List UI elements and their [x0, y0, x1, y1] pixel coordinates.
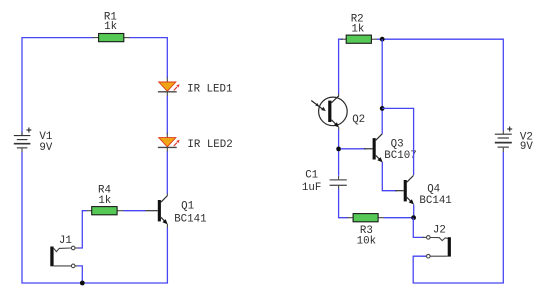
- connector J2: [423, 224, 451, 258]
- wire: R3 right to emitter node: [384, 217, 414, 219]
- wire: LED2 to Q1 collector: [166, 151, 168, 193]
- transistor Q3: [364, 134, 417, 163]
- resistor R1: [93, 11, 130, 41]
- junction: Q2/Q3/C1 node: [336, 147, 341, 152]
- junction: R2 / V2+ node: [380, 37, 385, 42]
- resistor R3: [347, 214, 384, 248]
- junction: J1/V1 bottom node: [80, 281, 85, 286]
- svg-text:Q2: Q2: [352, 114, 365, 126]
- svg-text:Q4: Q4: [427, 184, 440, 196]
- wire: C1 down to R3 left: [339, 189, 349, 218]
- wire: top rail R2 to V2+: [377, 39, 503, 131]
- transistor Q1: [144, 194, 206, 229]
- junction: Q3/Q4 collector node: [380, 106, 385, 111]
- wire: R4 to Q1 base: [123, 210, 145, 212]
- wire: R2 left down to Q2 collector: [339, 39, 343, 94]
- battery V2: [495, 127, 534, 154]
- wire: node down to J2 tip: [413, 218, 424, 238]
- junction: R3/Q4/J2 node: [411, 215, 416, 220]
- wire: J2 sleeve to bottom rail to V2-: [413, 152, 503, 283]
- svg-text:BC141: BC141: [174, 214, 206, 226]
- svg-text:IR LED2: IR LED2: [187, 139, 232, 151]
- wire: J1 sleeve down to ground rail: [78, 266, 83, 283]
- IR LED2 (diode D2): [158, 133, 233, 152]
- resistor R4: [86, 185, 123, 215]
- transistor Q4: [395, 175, 452, 207]
- svg-text:J1: J1: [59, 235, 72, 247]
- svg-text:10k: 10k: [357, 236, 376, 248]
- wire: collector node across and down to Q4 collector: [382, 108, 413, 175]
- wire: R1 to IR LED1: [130, 38, 168, 78]
- wire: Q2 emitter down to base node: [338, 130, 340, 176]
- svg-text:1k: 1k: [98, 195, 111, 207]
- svg-text:9V: 9V: [39, 142, 52, 154]
- wire: Q4 emitter down to R3/J2 node: [413, 205, 415, 218]
- svg-text:1k: 1k: [351, 23, 364, 35]
- svg-text:C1: C1: [305, 169, 318, 181]
- wire: Q3 collector up to top rail: [381, 39, 383, 134]
- svg-text:Q1: Q1: [181, 201, 194, 213]
- svg-text:9V: 9V: [520, 141, 533, 153]
- svg-text:1k: 1k: [104, 21, 117, 33]
- phototransistor Q2: [311, 94, 365, 130]
- svg-text:BC141: BC141: [419, 195, 451, 207]
- capacitor C1: [302, 169, 347, 194]
- wire: bottom rail V1- to Q1 emitter: [22, 152, 167, 283]
- battery V1: [14, 128, 53, 155]
- wire: LED1 to LED2: [166, 96, 168, 134]
- resistor R2: [341, 13, 378, 43]
- svg-text:1uF: 1uF: [302, 182, 321, 194]
- IR LED1 (diode D1): [158, 78, 233, 97]
- svg-text:J2: J2: [433, 224, 446, 236]
- wire: V1+ up and across to R1: [22, 38, 94, 136]
- connector J1: [50, 235, 78, 268]
- wire: node to Q3 base: [341, 148, 366, 150]
- wire: Q3 emitter down to Q4 base: [382, 162, 396, 191]
- svg-text:BC107: BC107: [384, 150, 416, 162]
- wire: J1 tip contact up to R4: [78, 211, 87, 248]
- svg-text:IR LED1: IR LED1: [187, 84, 232, 96]
